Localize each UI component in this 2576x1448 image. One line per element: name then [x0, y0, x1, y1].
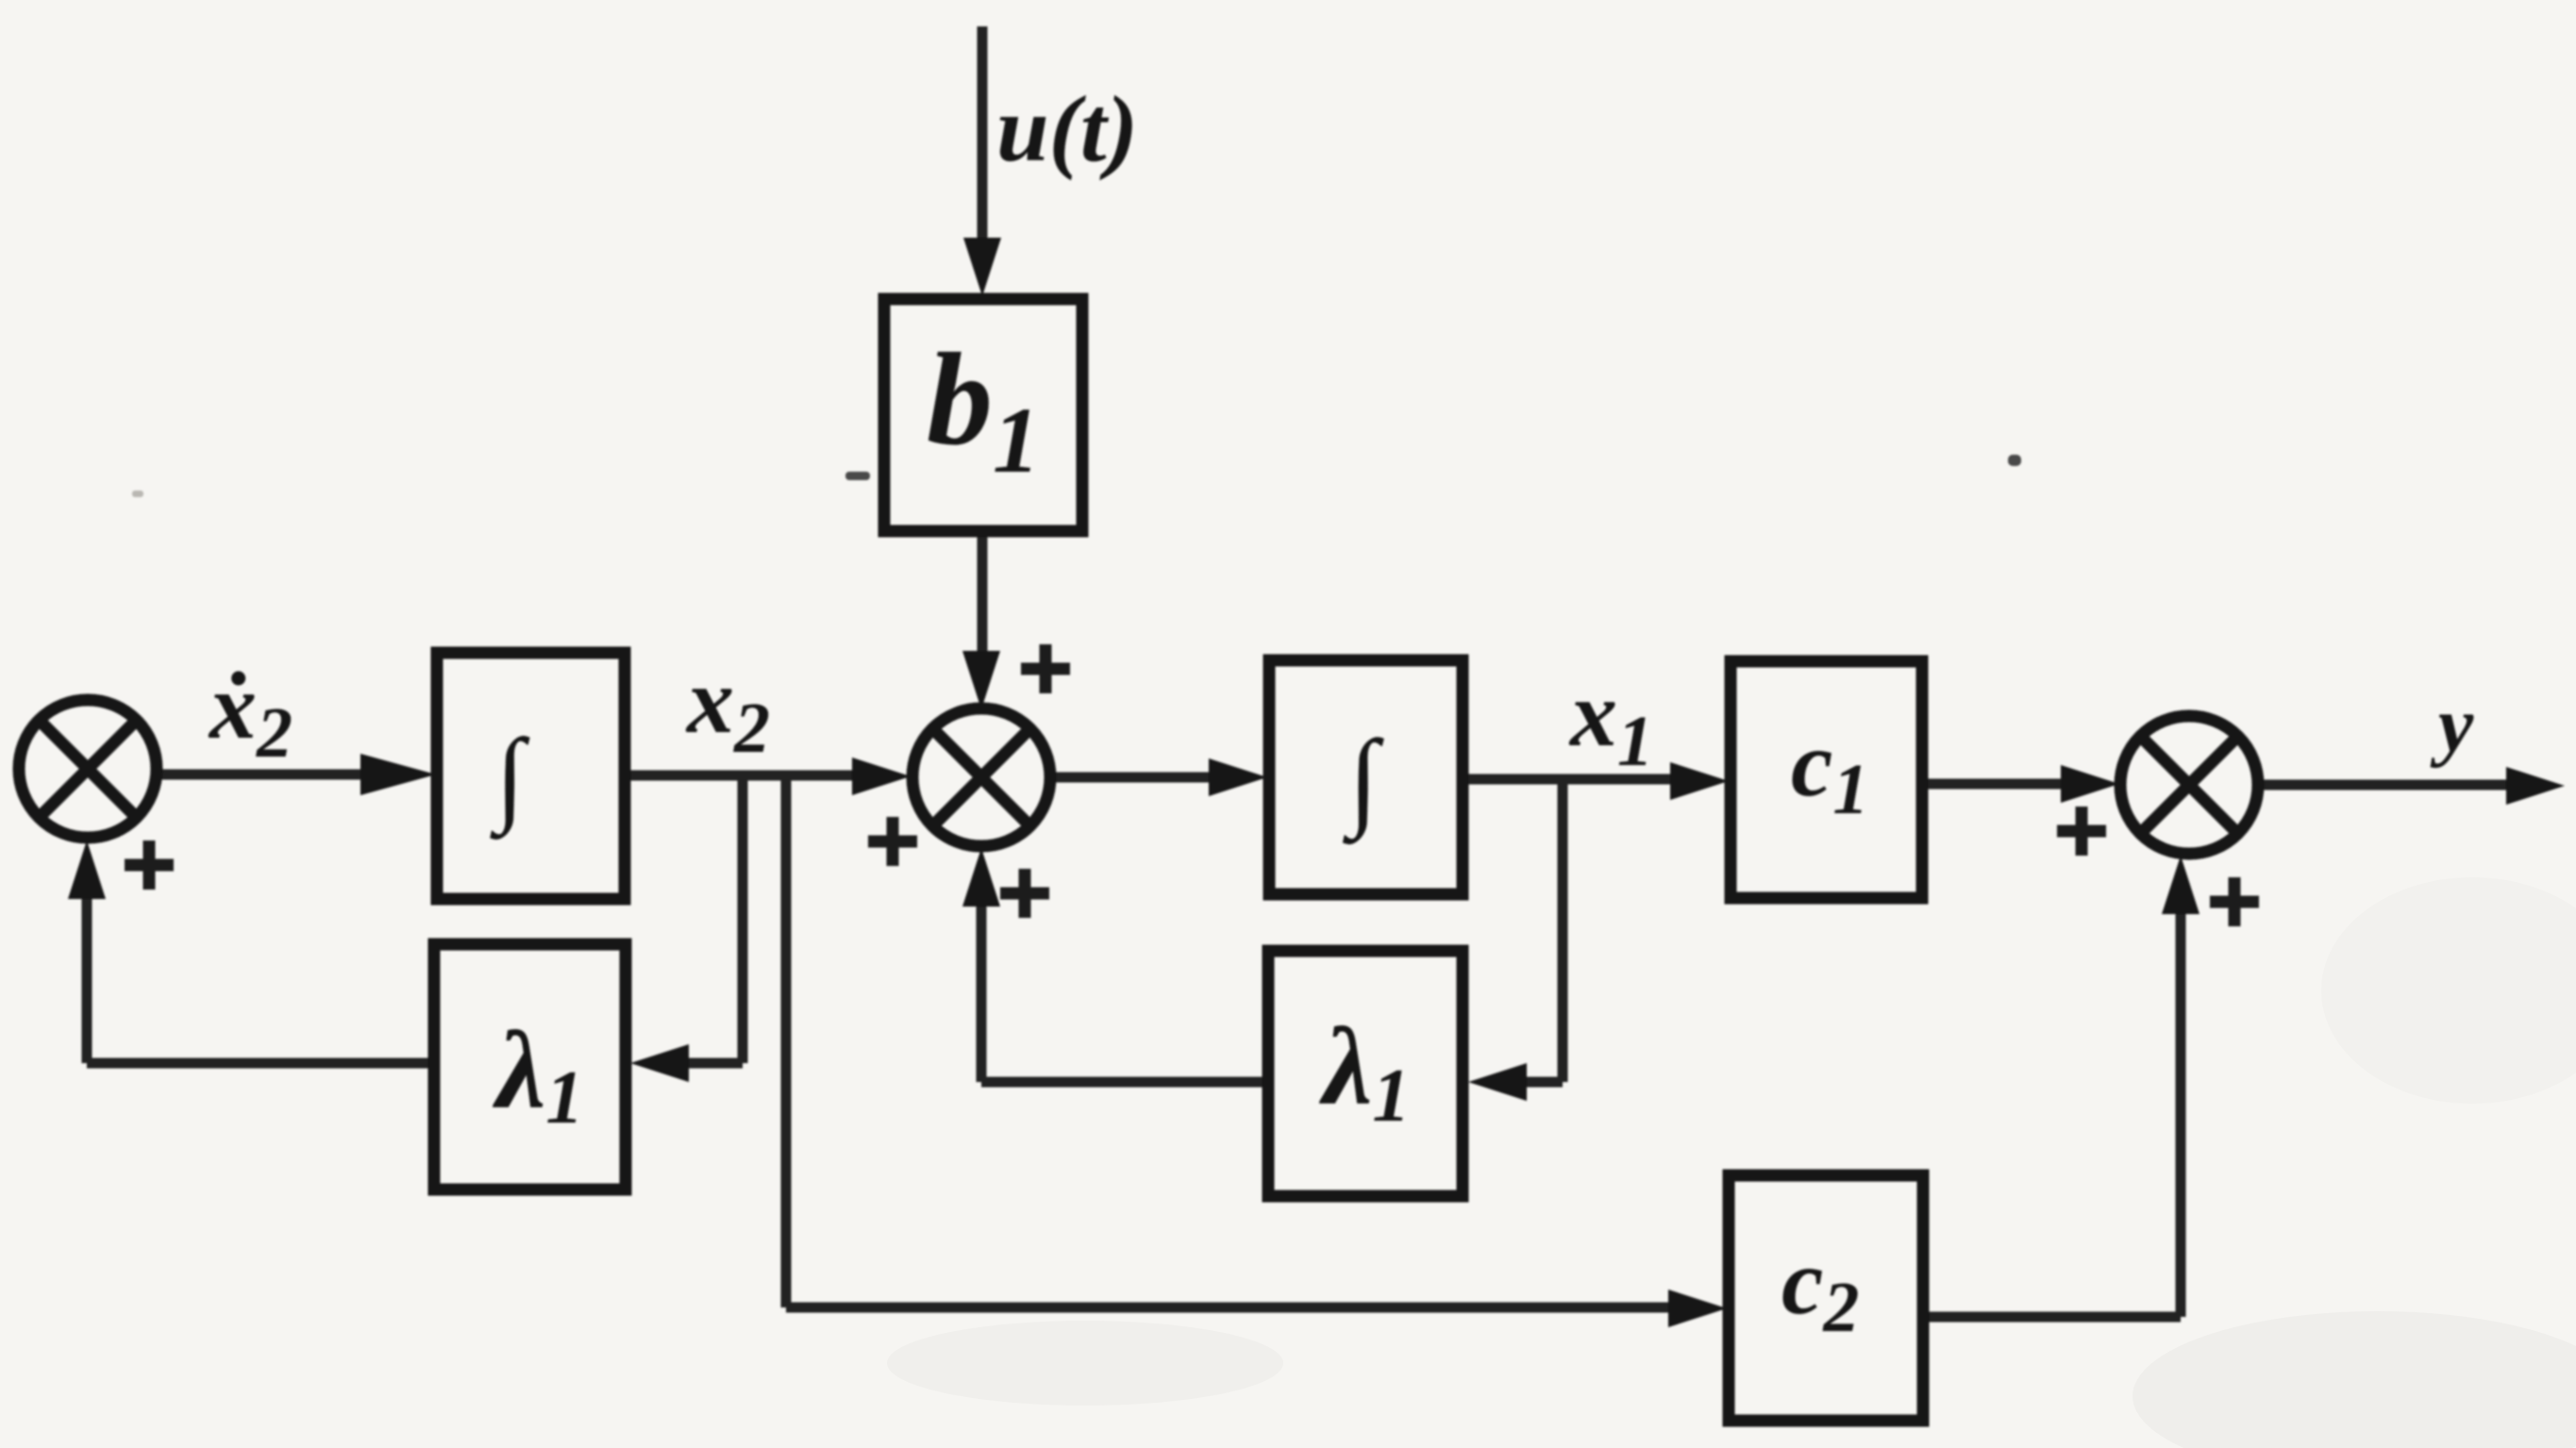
svg-text:u(t): u(t)	[996, 76, 1138, 181]
